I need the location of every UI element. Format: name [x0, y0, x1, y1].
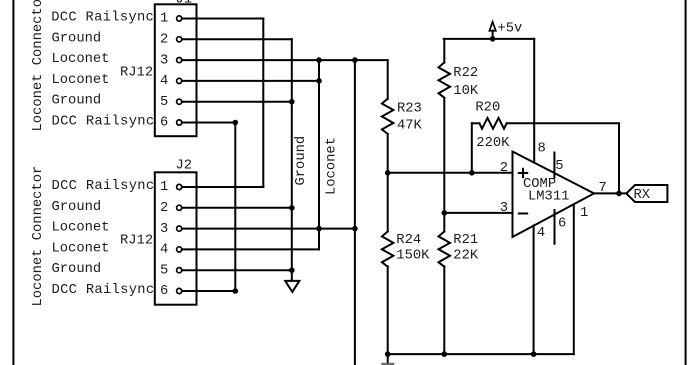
svg-text:3: 3 — [160, 53, 168, 68]
svg-text:22K: 22K — [453, 249, 479, 264]
svg-text:J1: J1 — [176, 0, 193, 7]
svg-text:Loconet Connector: Loconet Connector — [31, 166, 46, 307]
svg-text:RJ12: RJ12 — [120, 66, 153, 81]
svg-text:R24: R24 — [396, 233, 421, 248]
svg-text:1: 1 — [160, 180, 168, 195]
svg-text:5: 5 — [160, 95, 168, 110]
svg-text:R23: R23 — [397, 101, 422, 116]
svg-text:Loconet: Loconet — [52, 221, 110, 236]
svg-text:Loconet: Loconet — [52, 52, 110, 67]
svg-text:R20: R20 — [475, 101, 500, 116]
svg-text:3: 3 — [160, 222, 168, 237]
svg-text:Ground: Ground — [52, 30, 102, 46]
svg-text:2: 2 — [500, 161, 508, 176]
svg-text:2: 2 — [160, 201, 168, 216]
svg-text:4: 4 — [160, 74, 168, 89]
svg-text:2: 2 — [160, 33, 168, 48]
svg-text:Loconet: Loconet — [52, 241, 110, 256]
svg-text:DCC Railsync: DCC Railsync — [52, 282, 155, 298]
svg-text:Ground: Ground — [52, 199, 102, 215]
svg-text:5: 5 — [160, 263, 168, 278]
svg-text:6: 6 — [160, 284, 168, 299]
svg-text:Loconet Connector: Loconet Connector — [31, 0, 46, 132]
svg-text:4: 4 — [537, 226, 545, 241]
svg-text:Ground: Ground — [52, 93, 102, 109]
svg-text:150K: 150K — [396, 249, 430, 264]
svg-text:DCC Railsync: DCC Railsync — [52, 178, 155, 194]
svg-text:Loconet: Loconet — [325, 137, 340, 195]
svg-text:DCC Railsync: DCC Railsync — [51, 10, 154, 26]
svg-text:J2: J2 — [176, 159, 193, 174]
svg-text:10K: 10K — [453, 84, 479, 99]
svg-text:6: 6 — [558, 217, 566, 232]
svg-text:Loconet: Loconet — [52, 73, 110, 88]
svg-text:Ground: Ground — [293, 136, 309, 186]
svg-text:+5v: +5v — [498, 22, 523, 37]
svg-text:Ground: Ground — [52, 261, 102, 277]
svg-text:RJ12: RJ12 — [120, 233, 153, 248]
svg-text:6: 6 — [160, 116, 168, 131]
svg-text:1: 1 — [160, 12, 168, 27]
svg-text:8: 8 — [538, 142, 546, 157]
svg-text:DCC Railsync: DCC Railsync — [52, 114, 155, 130]
svg-text:RX: RX — [634, 188, 651, 203]
svg-text:R21: R21 — [453, 233, 478, 248]
svg-text:3: 3 — [500, 201, 508, 216]
svg-text:R22: R22 — [453, 66, 478, 81]
svg-text:1: 1 — [580, 206, 588, 221]
svg-text:220K: 220K — [476, 136, 510, 151]
svg-text:4: 4 — [160, 243, 168, 258]
svg-text:47K: 47K — [397, 118, 423, 133]
svg-text:LM311: LM311 — [528, 190, 569, 205]
svg-text:5: 5 — [555, 159, 563, 174]
